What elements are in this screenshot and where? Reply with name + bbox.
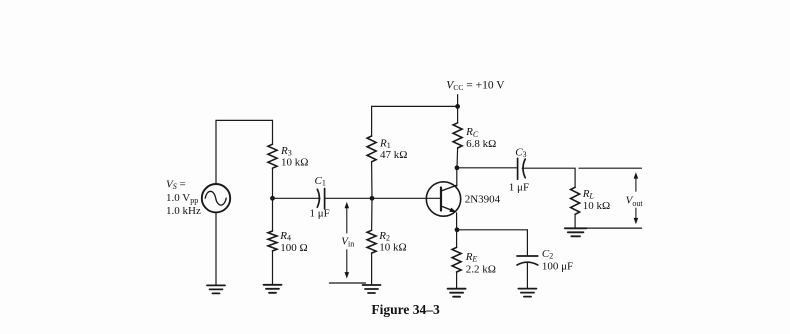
svg-text:1 μF: 1 μF bbox=[509, 181, 529, 193]
svg-text:47 kΩ: 47 kΩ bbox=[380, 149, 407, 161]
ground R4 bbox=[264, 285, 282, 293]
label RC value bbox=[465, 126, 496, 150]
label VS value bbox=[166, 178, 201, 217]
resistor R3 bbox=[268, 144, 277, 168]
wire node B to base bbox=[372, 197, 441, 199]
capacitor C1 bbox=[317, 189, 324, 209]
source VS sine wave bbox=[205, 191, 226, 205]
svg-text:VCC = +10 V: VCC = +10 V bbox=[446, 79, 505, 92]
wire R3 bottom lead bbox=[272, 168, 274, 198]
resistor R1 bbox=[367, 136, 376, 162]
svg-text:100 μF: 100 μF bbox=[542, 261, 573, 273]
label C1 value bbox=[310, 175, 330, 220]
wire R4 bottom lead bbox=[272, 251, 274, 285]
label R1 value bbox=[379, 137, 407, 161]
node collector junction dot bbox=[455, 165, 460, 170]
ground RE bbox=[448, 289, 466, 297]
ground source bbox=[207, 285, 225, 293]
wire collector node to C3 bbox=[457, 167, 517, 169]
wire RC top lead bbox=[457, 106, 459, 122]
svg-text:R3: R3 bbox=[280, 145, 292, 158]
label C2 value bbox=[542, 248, 573, 273]
wire node A to C1 bbox=[273, 197, 321, 199]
wire source top vertical bbox=[215, 120, 217, 184]
wire top rail to VCC node bbox=[372, 105, 458, 107]
Vin measure arrow bbox=[345, 202, 350, 279]
svg-text:6.8 kΩ: 6.8 kΩ bbox=[466, 138, 496, 150]
wire R4 top lead bbox=[272, 198, 274, 231]
Vout measure arrow bbox=[634, 172, 639, 224]
node B junction dot (base node) bbox=[370, 196, 375, 201]
svg-text:1.0 Vpp: 1.0 Vpp bbox=[166, 192, 198, 205]
wire R2 bottom lead bbox=[371, 253, 373, 285]
svg-text:100 Ω: 100 Ω bbox=[280, 242, 307, 254]
label R4 value bbox=[279, 230, 307, 254]
svg-text:1 μF: 1 μF bbox=[310, 207, 330, 219]
source VS circle bbox=[202, 184, 230, 212]
wire source bottom vertical bbox=[215, 212, 217, 285]
svg-text:R1: R1 bbox=[379, 137, 391, 150]
wire R1 riser bbox=[371, 106, 373, 136]
wire emitter vertical bbox=[456, 213, 458, 230]
wire C3 to output line bbox=[522, 168, 575, 187]
node VCC junction dot bbox=[455, 104, 460, 109]
svg-text:10 kΩ: 10 kΩ bbox=[379, 242, 406, 254]
svg-text:Vout: Vout bbox=[626, 195, 644, 208]
wire emitter node to C2 bbox=[457, 229, 528, 231]
ground R2 bbox=[363, 285, 381, 293]
svg-text:2.2 kΩ: 2.2 kΩ bbox=[466, 264, 496, 276]
label C3 value bbox=[509, 146, 529, 193]
capacitor C2 bbox=[517, 256, 538, 265]
wire R2 top lead bbox=[371, 198, 373, 230]
wire C2 top lead bbox=[526, 230, 528, 256]
svg-text:R4: R4 bbox=[279, 230, 291, 243]
wire RC bottom lead bbox=[456, 148, 459, 168]
wire C2 bottom lead bbox=[526, 262, 528, 288]
svg-text:C2: C2 bbox=[542, 248, 553, 261]
wire R1 bottom lead bbox=[371, 162, 373, 199]
resistor R2 bbox=[367, 230, 376, 253]
svg-text:10 kΩ: 10 kΩ bbox=[281, 157, 308, 169]
svg-text:RL: RL bbox=[582, 188, 595, 201]
Vin reference line bbox=[329, 282, 365, 284]
label R3 value bbox=[280, 145, 308, 169]
wire RE bottom lead bbox=[456, 272, 458, 289]
wire RL bottom lead bbox=[574, 214, 576, 228]
label RL value bbox=[582, 188, 610, 212]
wire RE top lead bbox=[456, 230, 458, 248]
svg-text:Vin: Vin bbox=[341, 235, 354, 248]
label RE value bbox=[465, 251, 496, 276]
svg-text:Figure 34–3: Figure 34–3 bbox=[371, 302, 440, 317]
svg-text:10 kΩ: 10 kΩ bbox=[583, 200, 610, 212]
node A junction dot (base divider) bbox=[270, 196, 275, 201]
transistor Q1 collector diagonal bbox=[441, 185, 457, 191]
ground RL bbox=[565, 228, 587, 236]
svg-text:C3: C3 bbox=[515, 146, 526, 159]
svg-text:VS =: VS = bbox=[166, 178, 186, 191]
transistor Q1 base bar bbox=[440, 188, 442, 211]
svg-text:RC: RC bbox=[465, 126, 479, 139]
wire top-left horizontal bbox=[216, 119, 273, 121]
wire VCC stub bbox=[457, 95, 459, 107]
wire C1 to node B bbox=[325, 197, 372, 199]
Vout reference line top bbox=[579, 167, 642, 169]
resistor RC bbox=[453, 123, 462, 148]
svg-text:C1: C1 bbox=[315, 175, 326, 188]
svg-text:RE: RE bbox=[465, 251, 478, 264]
svg-text:2N3904: 2N3904 bbox=[465, 193, 501, 205]
resistor RL bbox=[571, 187, 580, 214]
ground C2 bbox=[518, 289, 536, 297]
capacitor C3 bbox=[518, 158, 526, 179]
node emitter junction dot bbox=[455, 227, 460, 232]
wire collector vertical bbox=[456, 168, 458, 186]
svg-text:1.0 kHz: 1.0 kHz bbox=[166, 205, 201, 217]
resistor RE bbox=[452, 247, 461, 272]
resistor R4 bbox=[268, 231, 277, 251]
transistor Q1 circle bbox=[426, 182, 460, 216]
wire R3 top lead bbox=[272, 120, 274, 144]
transistor Q1 emitter diagonal with arrow bbox=[441, 206, 451, 210]
label R2 value bbox=[378, 230, 406, 254]
Vout reference line bottom bbox=[580, 227, 642, 229]
